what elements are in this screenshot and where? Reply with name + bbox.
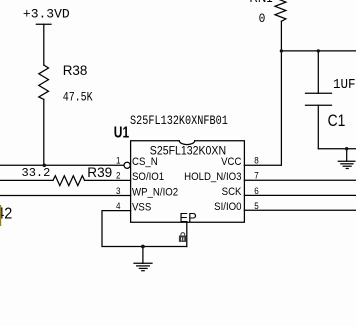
svg-text:SCK: SCK — [222, 185, 242, 198]
svg-text:R38: R38 — [63, 63, 88, 78]
svg-text:SI/IO0: SI/IO0 — [214, 200, 241, 213]
svg-text:VCC: VCC — [221, 155, 242, 168]
svg-text:HOLD_N/IO3: HOLD_N/IO3 — [184, 170, 241, 183]
svg-text:3: 3 — [116, 185, 121, 196]
svg-text:SO/IO1: SO/IO1 — [132, 170, 164, 183]
svg-text:5: 5 — [254, 200, 259, 211]
svg-text:0: 0 — [259, 12, 266, 27]
svg-text:U1: U1 — [114, 123, 129, 141]
svg-text:R39: R39 — [87, 165, 112, 180]
svg-text:VSS: VSS — [132, 201, 151, 214]
svg-text:EP: EP — [179, 210, 196, 225]
svg-text:6: 6 — [254, 185, 259, 196]
svg-text:S25FL132K0XN: S25FL132K0XN — [150, 145, 226, 158]
svg-text:S25FL132K0XNFB01: S25FL132K0XNFB01 — [130, 113, 228, 129]
svg-text:2: 2 — [116, 170, 121, 181]
svg-text:1: 1 — [116, 155, 121, 166]
svg-text:+3.3VD: +3.3VD — [23, 6, 70, 21]
svg-text:C1: C1 — [328, 112, 346, 130]
svg-text:8: 8 — [254, 155, 259, 166]
svg-text:33.2: 33.2 — [22, 166, 51, 180]
svg-text:RN1: RN1 — [250, 0, 273, 5]
svg-text:4: 4 — [116, 200, 121, 211]
svg-text:42: 42 — [0, 205, 12, 223]
svg-text:1UF: 1UF — [333, 76, 356, 92]
svg-text:WP_N/IO2: WP_N/IO2 — [132, 186, 178, 199]
svg-text:7: 7 — [254, 170, 259, 181]
svg-text:CS_N: CS_N — [132, 155, 158, 168]
svg-text:47.5K: 47.5K — [63, 92, 93, 105]
